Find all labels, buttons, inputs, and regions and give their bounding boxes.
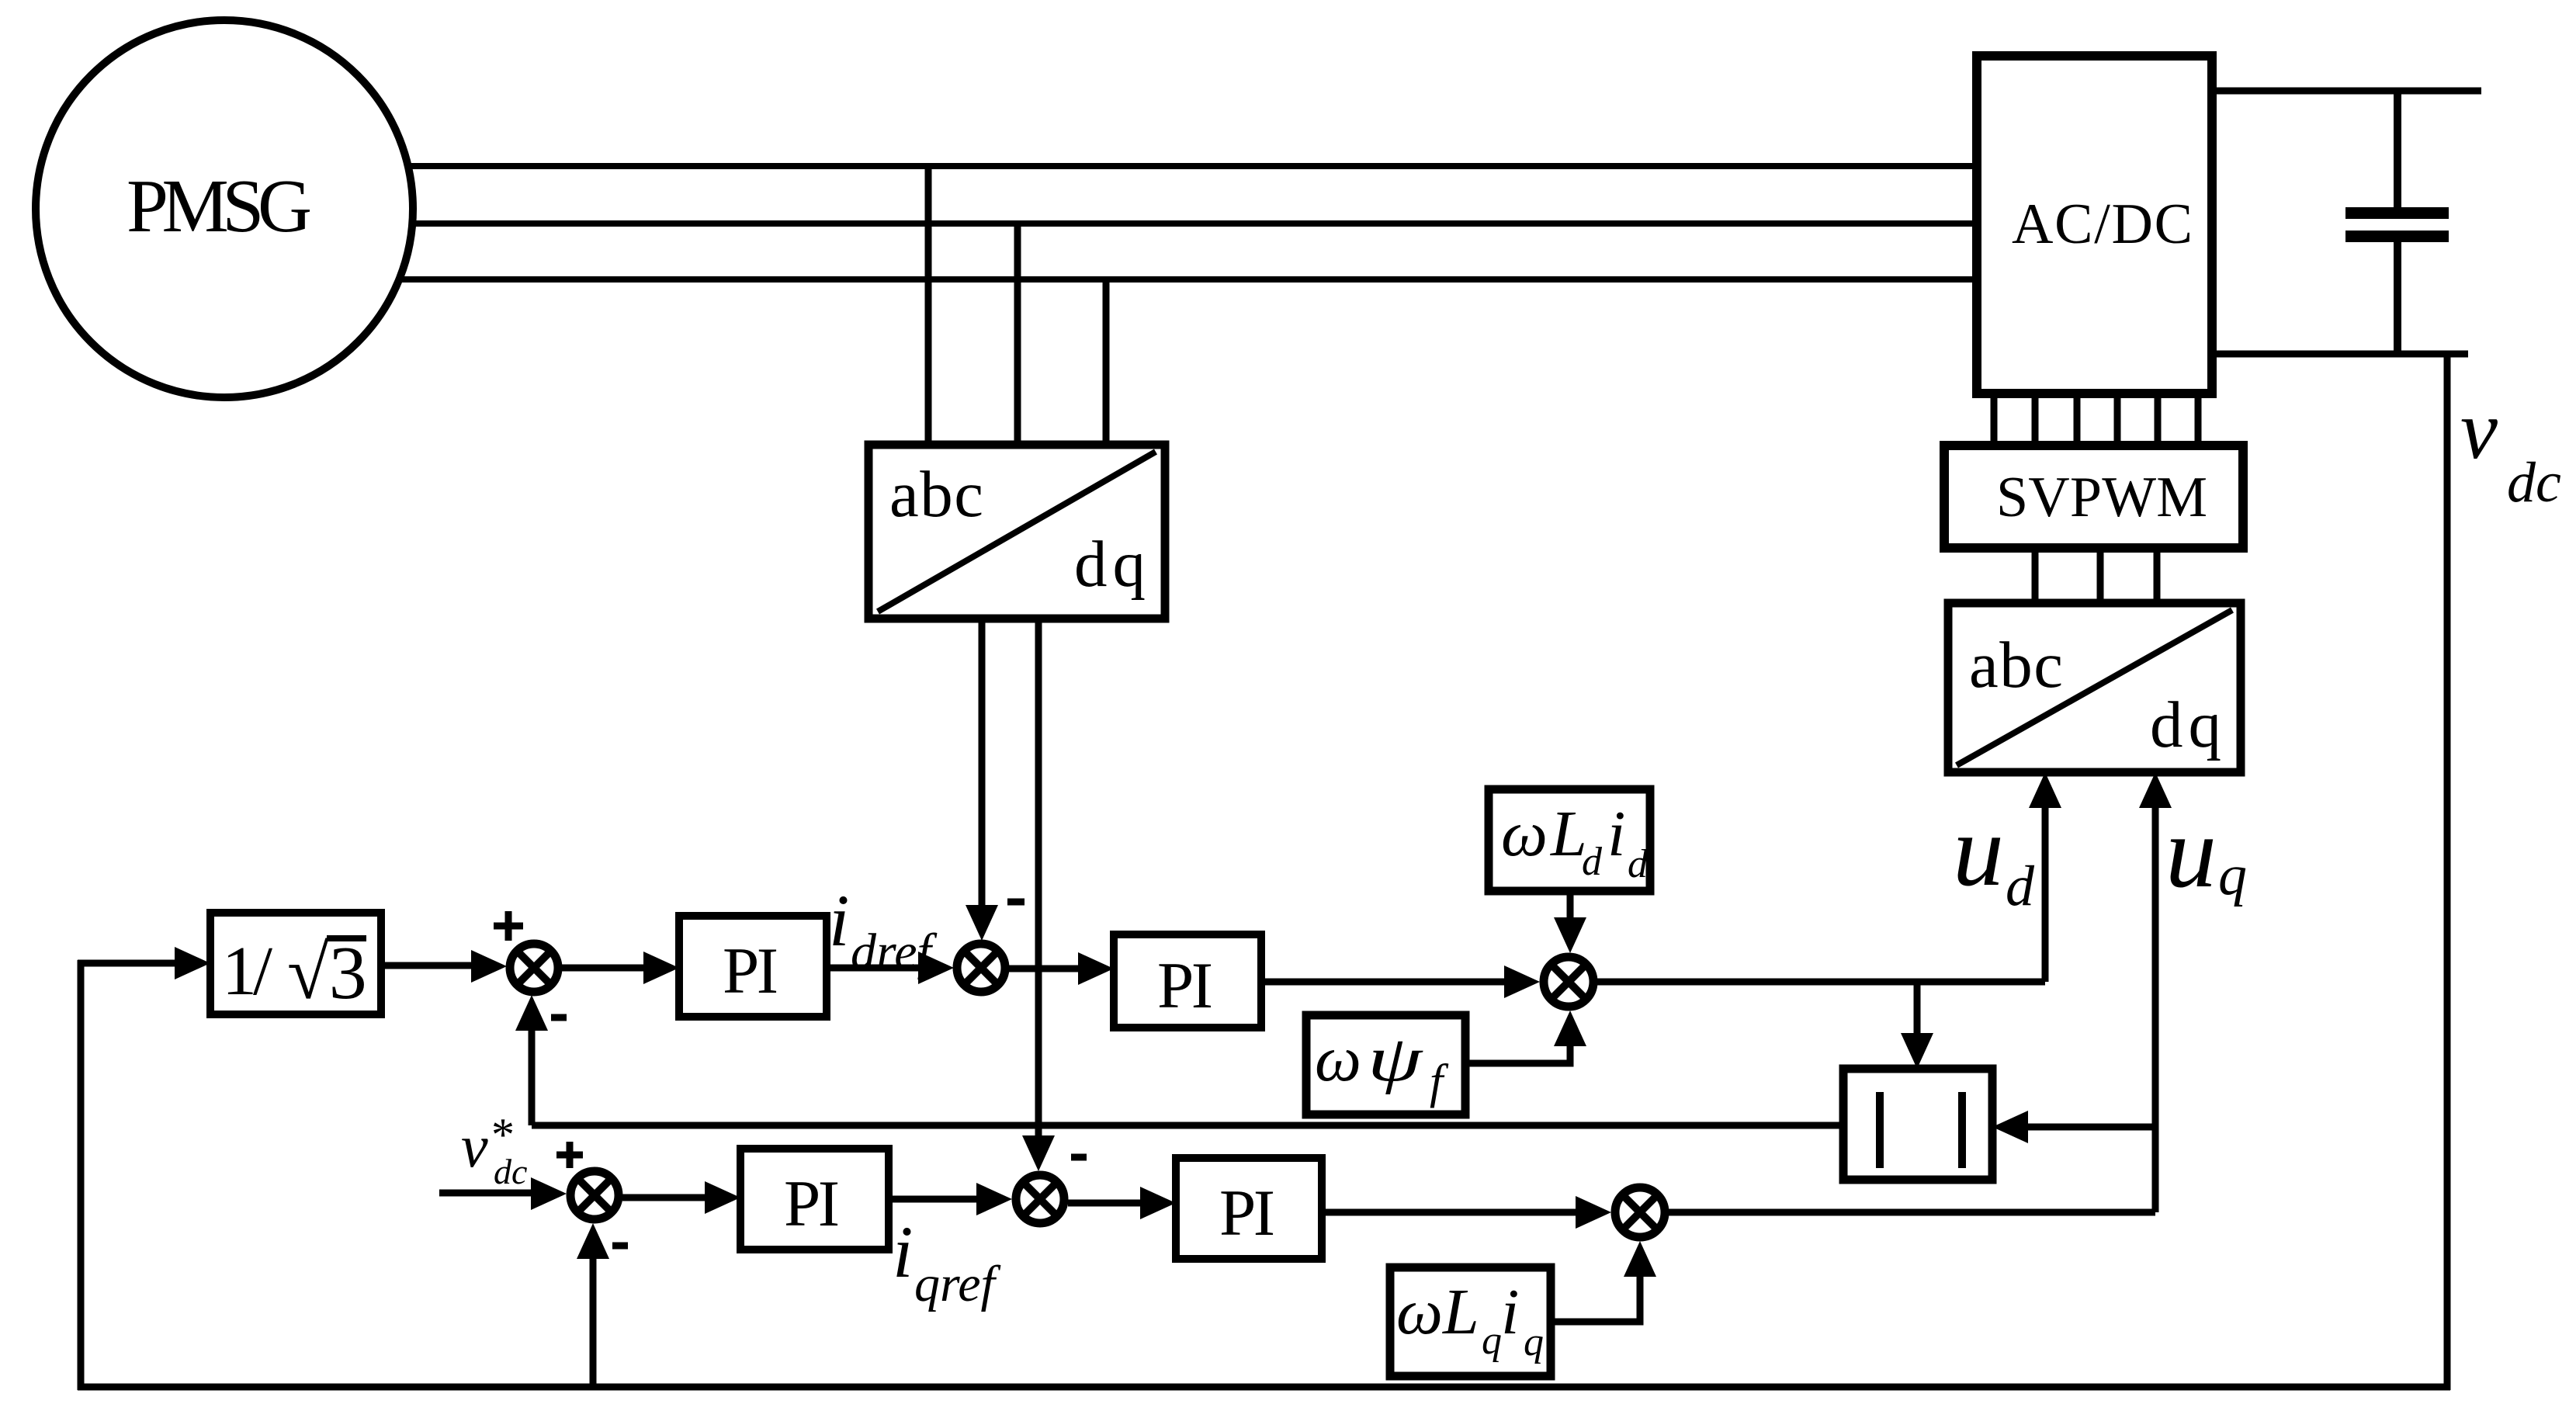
wire PI3 to junction S5 bbox=[889, 1183, 1012, 1215]
block omega Lq iq bbox=[1390, 1267, 1551, 1376]
svg-text:L: L bbox=[1442, 1276, 1479, 1348]
wire DC bus positive bbox=[2212, 88, 2481, 95]
wire bottom feedback to S4 bbox=[577, 1223, 609, 1390]
svg-text:ω: ω bbox=[1315, 1023, 1361, 1095]
svg-text:i: i bbox=[829, 879, 849, 962]
svg-text:i: i bbox=[1607, 798, 1625, 870]
svg-text:i: i bbox=[1501, 1276, 1519, 1348]
label minus S4 bbox=[612, 1243, 628, 1250]
converter AC/DC bbox=[1977, 56, 2212, 393]
gate pin 2 bbox=[2032, 393, 2039, 449]
label minus S1 bbox=[551, 1014, 567, 1021]
svg-text:/: / bbox=[253, 933, 272, 1010]
wire feedback vdc into 1/sqrt3 (left vertical) bbox=[78, 947, 210, 1390]
absolute value block bbox=[1843, 1069, 1992, 1180]
controller PI2 bbox=[1114, 934, 1261, 1028]
wire phase c bbox=[399, 276, 1981, 283]
wire uq (S6 output to transform U2) bbox=[1669, 772, 2172, 1212]
svg-text:abc: abc bbox=[889, 458, 983, 531]
wire phase a bbox=[407, 163, 1981, 169]
svg-text:ψ: ψ bbox=[1368, 1023, 1423, 1095]
wire tap phase b to abc/dq bbox=[1014, 224, 1021, 449]
wire 1/sqrt3 to junction S1 bbox=[381, 950, 507, 983]
label iqref bbox=[893, 1211, 1001, 1312]
svg-text:u: u bbox=[1953, 793, 2004, 907]
summing junction S5 bbox=[1016, 1175, 1064, 1223]
summing junction S6 bbox=[1615, 1187, 1665, 1237]
label uq bbox=[2165, 795, 2247, 909]
svg-text:SVPWM: SVPWM bbox=[1996, 466, 2207, 529]
pin SVPWM to transform 1 bbox=[2032, 548, 2039, 605]
wire absolute value output feedback to S1 bbox=[515, 995, 1843, 1125]
svg-text:PI: PI bbox=[784, 1167, 840, 1240]
svg-text:d: d bbox=[1628, 842, 1649, 886]
block SVPWM bbox=[1944, 445, 2243, 548]
label plus S4 bbox=[556, 1142, 583, 1168]
wire omega psi f to S3 bbox=[1465, 1011, 1586, 1063]
gate pin 6 bbox=[2195, 393, 2202, 449]
wire omega Ld id to S3 bbox=[1554, 891, 1586, 953]
capacitor C bbox=[2345, 91, 2449, 354]
controller PI4 bbox=[1176, 1158, 1322, 1259]
wire PI4 to junction S6 bbox=[1322, 1196, 1611, 1229]
svg-text:dc: dc bbox=[494, 1152, 527, 1191]
svg-text:PI: PI bbox=[723, 934, 778, 1007]
wire uq tap to absolute value input bbox=[1992, 1111, 2155, 1143]
svg-text:d: d bbox=[2006, 855, 2035, 918]
svg-text:i: i bbox=[893, 1211, 913, 1293]
summing junction S3 bbox=[1544, 957, 1593, 1007]
wire PI2 to junction S3 bbox=[1261, 966, 1540, 998]
label minus S5 bbox=[1071, 1154, 1087, 1161]
svg-text:d: d bbox=[1582, 840, 1603, 884]
label ud bbox=[1953, 793, 2035, 918]
svg-text:dc: dc bbox=[2507, 451, 2561, 515]
block dq to abc transform U2 bbox=[1948, 603, 2241, 772]
wire vdc sense (right vertical) bbox=[2444, 351, 2451, 1390]
svg-text:v: v bbox=[2460, 384, 2498, 477]
label idref bbox=[829, 879, 938, 980]
pin SVPWM to transform 3 bbox=[2154, 548, 2161, 605]
controller PI1 bbox=[679, 916, 827, 1017]
svg-text:√3: √3 bbox=[287, 931, 367, 1015]
svg-text:1: 1 bbox=[222, 933, 257, 1010]
svg-text:PI: PI bbox=[1219, 1177, 1275, 1250]
label vdc reference bbox=[461, 1109, 527, 1191]
wire id from transform to junction S2 bbox=[966, 619, 998, 941]
label minus S2 bbox=[1007, 899, 1025, 906]
wire S4 to PI3 bbox=[622, 1181, 740, 1214]
wire vdc reference input bbox=[439, 1177, 567, 1210]
block omega Ld id bbox=[1489, 789, 1650, 891]
gate pin 1 AC/DC to SVPWM bbox=[1991, 393, 1998, 449]
svg-text:v: v bbox=[461, 1112, 488, 1180]
wire ud (S3 output to transform U2) bbox=[1597, 772, 2061, 982]
wire phase b bbox=[411, 220, 1981, 227]
svg-text:ω: ω bbox=[1501, 798, 1548, 870]
svg-text:abc: abc bbox=[1969, 629, 2063, 702]
gate pin 4 bbox=[2114, 393, 2121, 449]
svg-text:AC/DC: AC/DC bbox=[2012, 192, 2193, 256]
wire S2 to PI2 bbox=[1008, 952, 1114, 985]
wire bottom feedback bus bbox=[78, 1384, 2450, 1391]
summing junction S2 bbox=[957, 944, 1005, 992]
wire iq from transform down to junction S5 bbox=[1022, 619, 1055, 1171]
svg-text:q: q bbox=[1524, 1320, 1544, 1364]
gate pin 5 bbox=[2155, 393, 2162, 449]
svg-text:q: q bbox=[1482, 1319, 1502, 1363]
wire branch to absolute value block bbox=[1901, 982, 1933, 1069]
svg-text:q: q bbox=[2218, 844, 2247, 907]
wire PI1 to junction S2 bbox=[827, 952, 954, 984]
pin SVPWM to transform 2 bbox=[2097, 548, 2104, 605]
controller PI3 bbox=[740, 1149, 889, 1250]
wire S1 to PI1 bbox=[561, 952, 679, 984]
svg-text:PMSG: PMSG bbox=[127, 165, 312, 248]
wire DC bus negative bbox=[2212, 351, 2468, 358]
wire tap phase c to abc/dq bbox=[1103, 279, 1110, 449]
summing junction S4 bbox=[570, 1171, 619, 1219]
block 1/sqrt3 bbox=[210, 913, 381, 1015]
summing junction S1 bbox=[510, 944, 558, 992]
generator PMSG bbox=[36, 20, 413, 397]
block omega psi f bbox=[1306, 1015, 1465, 1115]
wire omega Lq iq to S6 bbox=[1551, 1241, 1656, 1322]
gate pin 3 bbox=[2074, 393, 2081, 449]
svg-text:u: u bbox=[2165, 795, 2217, 909]
svg-text:ω: ω bbox=[1396, 1276, 1443, 1348]
block abc to dq transform U1 bbox=[868, 445, 1165, 619]
wire S5 to PI4 bbox=[1068, 1187, 1176, 1219]
svg-text:PI: PI bbox=[1157, 949, 1213, 1022]
label vdc bbox=[2460, 384, 2561, 515]
svg-text:qref: qref bbox=[914, 1256, 1001, 1312]
wire tap phase a to abc/dq bbox=[925, 166, 932, 449]
label plus S1 bbox=[494, 911, 523, 941]
